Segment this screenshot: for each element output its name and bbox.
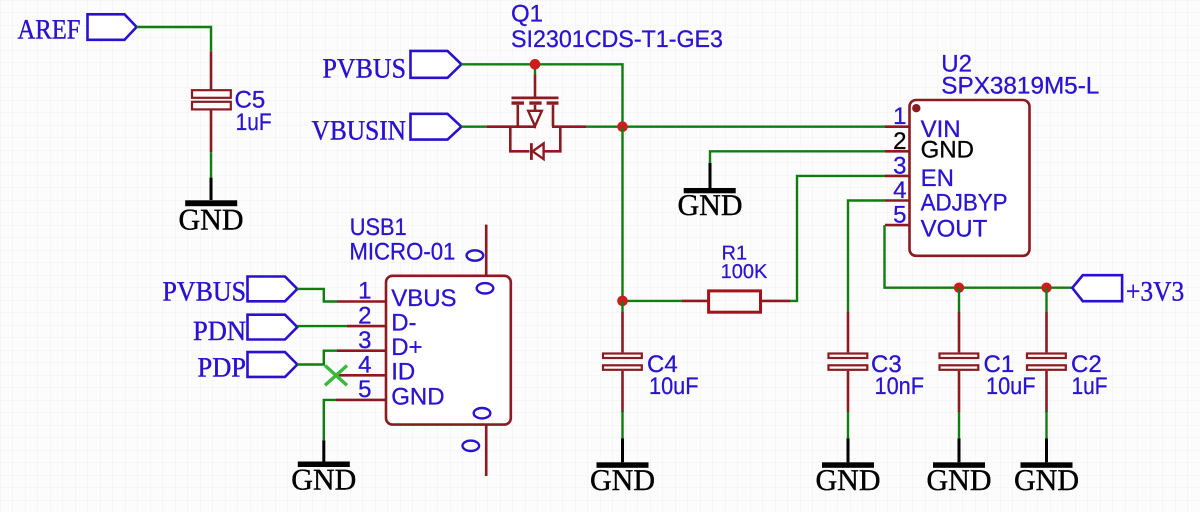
svg-text:PDN: PDN xyxy=(193,316,246,347)
pin 2 D- xyxy=(347,325,386,328)
svg-text:3: 3 xyxy=(893,153,906,180)
svg-text:MICRO-01: MICRO-01 xyxy=(349,239,455,266)
svg-text:5: 5 xyxy=(893,202,906,229)
capacitor C3 xyxy=(829,312,925,412)
wire PVBUS to corner xyxy=(461,64,622,126)
wire junction to Q1 gate (green part) xyxy=(534,64,536,74)
svg-text:USB1: USB1 xyxy=(350,214,407,241)
svg-text:EN: EN xyxy=(921,165,954,192)
pin 4 ID xyxy=(338,374,386,377)
svg-text:SPX3819M5-L: SPX3819M5-L xyxy=(941,73,1099,100)
ground GND (USB1) xyxy=(291,440,356,496)
net flag PVBUS (USB) xyxy=(163,277,298,308)
wire AREF to C5 xyxy=(137,27,211,51)
pin 1 VIN xyxy=(885,125,909,128)
svg-text:ID: ID xyxy=(391,359,415,386)
svg-text:VBUSIN: VBUSIN xyxy=(312,115,407,146)
svg-text:+3V3: +3V3 xyxy=(1126,276,1184,307)
shield pin 0 (top) xyxy=(485,225,488,276)
connector USB1 xyxy=(336,214,511,476)
svg-text:1uF: 1uF xyxy=(1072,373,1108,400)
svg-text:10uF: 10uF xyxy=(649,373,699,400)
svg-text:1: 1 xyxy=(358,278,371,305)
svg-text:GND: GND xyxy=(678,189,743,222)
wire C5 to GND xyxy=(210,152,212,177)
junction (PVBUS / Q1 gate) xyxy=(530,59,541,70)
junction (VOUT / C1) xyxy=(954,283,964,293)
junction (Q1 out / VIN net) xyxy=(617,121,628,132)
svg-text:Q1: Q1 xyxy=(511,0,543,27)
resistor R1 xyxy=(682,242,790,312)
svg-text:4: 4 xyxy=(358,352,371,379)
wire junction to R1 xyxy=(623,300,683,302)
transistor Q1 xyxy=(486,0,723,126)
svg-text:4: 4 xyxy=(893,177,906,204)
ground GND (C2) xyxy=(1014,438,1079,497)
pin 2 GND xyxy=(885,150,909,153)
svg-text:1uF: 1uF xyxy=(236,109,272,136)
svg-text:VOUT: VOUT xyxy=(921,216,988,243)
svg-text:AREF: AREF xyxy=(18,15,81,46)
net flag PDP xyxy=(198,352,298,383)
svg-text:5: 5 xyxy=(358,376,371,403)
svg-text:GND: GND xyxy=(921,137,974,164)
body diode of Q1 xyxy=(510,127,560,160)
svg-text:1: 1 xyxy=(893,103,906,130)
pin 3 EN xyxy=(885,175,909,178)
pin 4 ADJBYP xyxy=(885,199,909,202)
IC U2 xyxy=(885,51,1099,256)
wire C4 to GND xyxy=(621,412,623,438)
svg-text:D+: D+ xyxy=(391,334,422,361)
capacitor C4 xyxy=(603,301,699,412)
wire U2 EN to R1 xyxy=(790,176,885,301)
svg-text:ADJBYP: ADJBYP xyxy=(921,190,1008,217)
ground GND (C1) xyxy=(927,438,992,497)
ground GND (C4) xyxy=(590,438,655,497)
svg-text:GND: GND xyxy=(291,464,356,497)
wire PVBUS to USB pin1 xyxy=(297,289,337,302)
capacitor C1 xyxy=(940,288,1036,412)
svg-text:2: 2 xyxy=(893,128,906,155)
svg-text:GND: GND xyxy=(391,383,444,410)
wire PDP to USB pin3 xyxy=(297,351,337,365)
svg-text:PDP: PDP xyxy=(198,353,247,384)
svg-text:PVBUS: PVBUS xyxy=(163,277,247,308)
svg-text:D-: D- xyxy=(391,310,416,337)
pin 3 D+ xyxy=(337,349,386,352)
wire C2 to GND xyxy=(1045,412,1047,438)
junction (VOUT / C2) xyxy=(1041,283,1051,293)
wire C3 to GND xyxy=(847,412,849,438)
ground GND (U2 pin2) xyxy=(678,163,743,222)
pin 5 GND xyxy=(336,399,386,402)
wire VBUSIN to Q1 xyxy=(461,125,486,127)
svg-text:GND: GND xyxy=(179,203,244,236)
wire USB GND pin down xyxy=(324,400,336,440)
capacitor C2 xyxy=(1027,288,1108,412)
net flag AREF xyxy=(18,14,137,45)
capacitor C5 xyxy=(192,51,272,152)
pin 5 VOUT xyxy=(885,224,909,227)
svg-text:SI2301CDS-T1-GE3: SI2301CDS-T1-GE3 xyxy=(511,26,723,53)
svg-text:GND: GND xyxy=(590,464,655,497)
svg-text:2: 2 xyxy=(358,302,371,329)
net flag VBUSIN xyxy=(312,114,462,147)
svg-text:GND: GND xyxy=(927,464,992,497)
no-connect X on USB pin 4 xyxy=(325,366,347,386)
svg-text:10nF: 10nF xyxy=(875,373,925,400)
svg-text:PVBUS: PVBUS xyxy=(323,54,407,85)
wire VIN net down to R1 junction xyxy=(621,127,623,301)
wire U2 ADJBYP to C3 xyxy=(848,201,885,313)
wire U2 GND pin xyxy=(710,151,885,163)
svg-text:10uF: 10uF xyxy=(986,373,1036,400)
pin 1 VBUS xyxy=(337,300,386,303)
shield pin 0 (bottom) xyxy=(485,425,488,476)
wire C1 to GND xyxy=(958,412,960,438)
net flag PDN xyxy=(193,315,297,348)
wire U2 VOUT to +3V3 rail xyxy=(885,225,1073,288)
ground GND (C5) xyxy=(179,178,244,237)
svg-text:100K: 100K xyxy=(721,261,768,283)
svg-text:3: 3 xyxy=(358,327,371,354)
svg-text:GND: GND xyxy=(1014,464,1079,497)
wire Q1 to U2 VIN xyxy=(586,125,885,127)
junction (VIN net / R1 / C4) xyxy=(617,296,628,307)
net flag +3V3 xyxy=(1072,275,1184,307)
wire PDN to USB pin2 xyxy=(297,325,347,327)
net flag PVBUS (top) xyxy=(323,51,462,85)
svg-text:VBUS: VBUS xyxy=(391,285,456,312)
svg-text:GND: GND xyxy=(816,464,881,497)
ground GND (C3) xyxy=(816,438,881,497)
